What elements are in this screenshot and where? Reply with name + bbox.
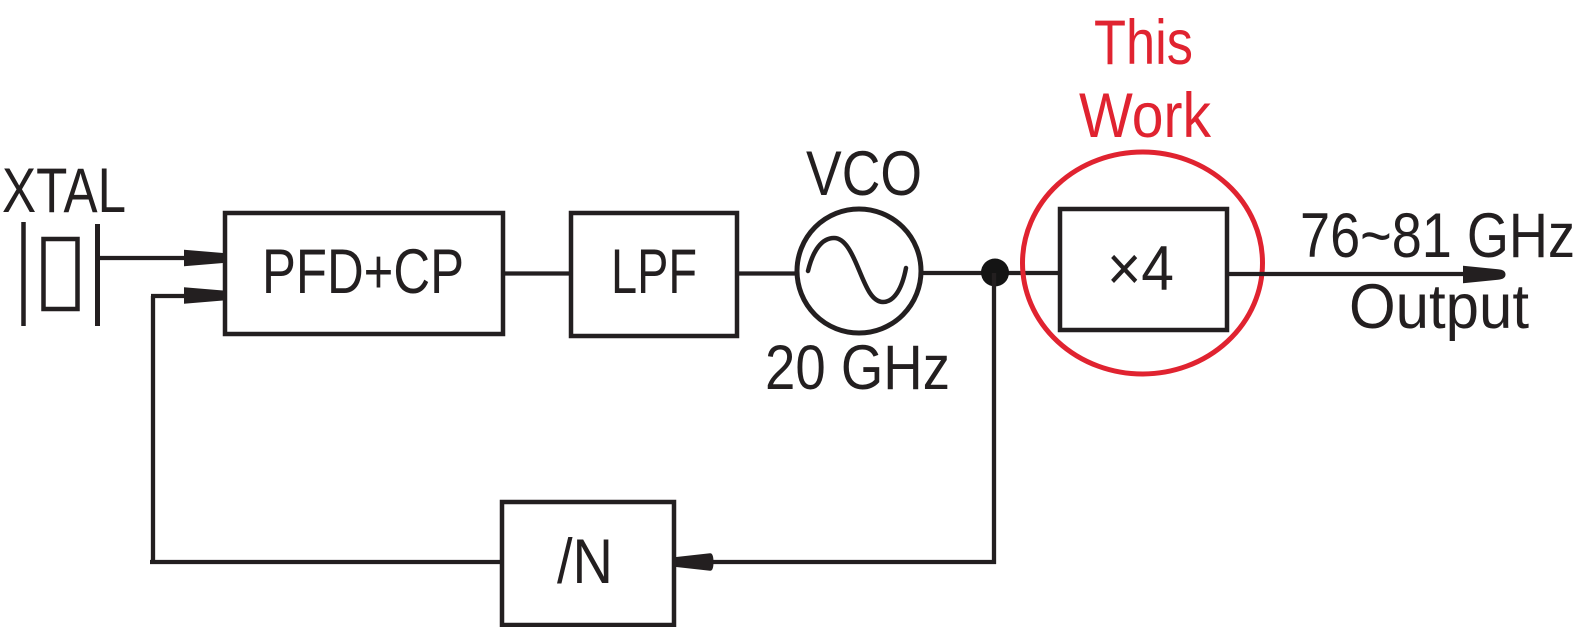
svg-text:/N: /N [557, 527, 613, 597]
svg-text:This: This [1094, 8, 1193, 78]
svg-text:PFD+CP: PFD+CP [262, 237, 464, 307]
svg-text:XTAL: XTAL [2, 156, 126, 226]
block U5 divider /N box [502, 502, 674, 625]
arrowhead into divider /N [674, 553, 714, 571]
block U1 PFD+CP box [225, 213, 503, 334]
wire feedback vertical right [992, 273, 996, 564]
arrowhead into PFD reference input [184, 250, 226, 266]
svg-text:VCO: VCO [806, 139, 922, 209]
svg-text:Work: Work [1079, 81, 1211, 151]
wire LPF to VCO [737, 271, 797, 275]
wire feedback bottom right to divider [712, 560, 996, 564]
wire feedback vertical left [151, 296, 155, 564]
highlight ellipse This Work [1023, 152, 1263, 374]
crystal X1 right electrode [95, 224, 100, 326]
wire PFD+CP to LPF [503, 271, 571, 275]
block U4 frequency multiplier x4 box [1060, 209, 1227, 330]
wire crystal to PFD reference input [97, 256, 190, 260]
node junction dot [981, 259, 1009, 287]
svg-text:20 GHz: 20 GHz [765, 333, 950, 403]
svg-text:76~81 GHz: 76~81 GHz [1300, 201, 1575, 271]
wire VCO to x4 multiplier [921, 271, 1060, 275]
wire x4 to output [1227, 272, 1470, 276]
crystal X1 left electrode [21, 222, 26, 326]
svg-text:×4: ×4 [1107, 234, 1174, 304]
arrowhead into PFD feedback input [184, 287, 226, 303]
arrowhead output [1463, 266, 1506, 284]
svg-text:LPF: LPF [611, 237, 697, 307]
oscillator U3 sine wave symbol [808, 238, 906, 302]
block U2 LPF box [571, 213, 737, 336]
wire into PFD feedback input [151, 294, 190, 298]
svg-text:Output: Output [1349, 272, 1529, 342]
oscillator U3 VCO circle [797, 209, 921, 333]
wire divider to left vertical [150, 560, 502, 564]
crystal X1 body [44, 239, 78, 309]
